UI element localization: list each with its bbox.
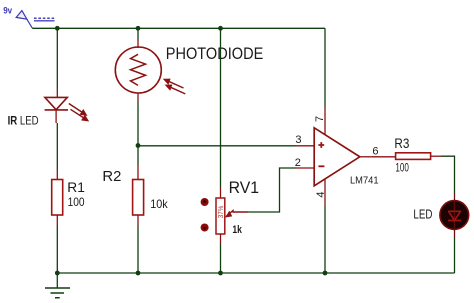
- wire node A to R2: [137, 146, 139, 166]
- wire R2 to ground rail: [137, 225, 139, 273]
- power terminal 9V: [16, 11, 54, 28]
- svg-text:1k: 1k: [232, 224, 242, 236]
- RV1 decrement button: [201, 224, 209, 232]
- wire LED to ground rail: [454, 237, 456, 273]
- svg-text:LED: LED: [413, 208, 432, 222]
- junction ground rail / RV1: [218, 271, 223, 276]
- resistor R1: [52, 170, 63, 225]
- wire IR LED branch upper: [56, 28, 58, 89]
- svg-text:3: 3: [295, 134, 301, 146]
- RV1 increment button: [201, 198, 209, 206]
- junction ground rail / op-amp pin 4: [323, 271, 328, 276]
- svg-text:RV1: RV1: [229, 179, 260, 197]
- svg-text:10k: 10k: [150, 197, 168, 211]
- svg-text:R2: R2: [102, 169, 121, 185]
- wire op-amp pin 4 to ground rail: [324, 206, 326, 273]
- wire LED anode stub: [454, 193, 456, 201]
- junction top rail / photodiode branch: [136, 26, 141, 31]
- junction ground rail / ground symbol: [55, 271, 60, 276]
- svg-text:100: 100: [68, 195, 85, 209]
- svg-text:7: 7: [314, 116, 326, 122]
- ground: [45, 273, 70, 298]
- svg-text:37%: 37%: [216, 205, 225, 218]
- junction node A (photodiode/R2/pin3): [136, 143, 141, 148]
- junction top rail / IR LED branch: [55, 26, 60, 31]
- potentiometer RV1: [216, 188, 248, 244]
- photodiode LDR symbol: [115, 40, 185, 101]
- wire R1 to ground rail: [56, 225, 58, 273]
- op-amp U1 LM741: [296, 108, 373, 206]
- junction top rail / RV1 branch: [218, 26, 223, 31]
- svg-text:9v: 9v: [3, 6, 13, 17]
- wire IR LED to R1: [56, 123, 58, 170]
- junction ground rail / R2: [136, 271, 141, 276]
- wire photodiode to node A: [137, 101, 139, 146]
- svg-text:4: 4: [315, 191, 327, 197]
- wire RV1 to ground rail: [220, 244, 222, 273]
- wire op-amp pin 7 to top rail: [324, 28, 326, 108]
- wire photodiode branch upper: [137, 28, 139, 40]
- wire op-amp pin 6 to R3: [372, 156, 396, 158]
- resistor R3: [396, 153, 441, 160]
- LED D1 output: [440, 201, 469, 230]
- svg-text:6: 6: [372, 145, 378, 157]
- resistor R2: [133, 166, 144, 225]
- wire R3 to LED: [441, 156, 455, 193]
- svg-text:PHOTODIODE: PHOTODIODE: [166, 44, 263, 63]
- wire RV1 branch upper: [220, 28, 222, 188]
- svg-text:100: 100: [395, 160, 409, 174]
- svg-text:IR LED: IR LED: [8, 114, 39, 128]
- svg-text:LM741: LM741: [350, 174, 379, 186]
- wire LED cathode stub: [454, 229, 456, 237]
- wire node A to op-amp pin 3: [138, 145, 296, 147]
- wire ground rail: [57, 272, 454, 274]
- svg-text:R3: R3: [394, 135, 409, 151]
- IR LED: [45, 89, 89, 123]
- svg-text:2: 2: [295, 157, 301, 169]
- wire RV1 wiper to op-amp pin 2: [248, 168, 296, 212]
- wire top rail: [32, 27, 325, 29]
- svg-text:R1: R1: [67, 179, 85, 195]
